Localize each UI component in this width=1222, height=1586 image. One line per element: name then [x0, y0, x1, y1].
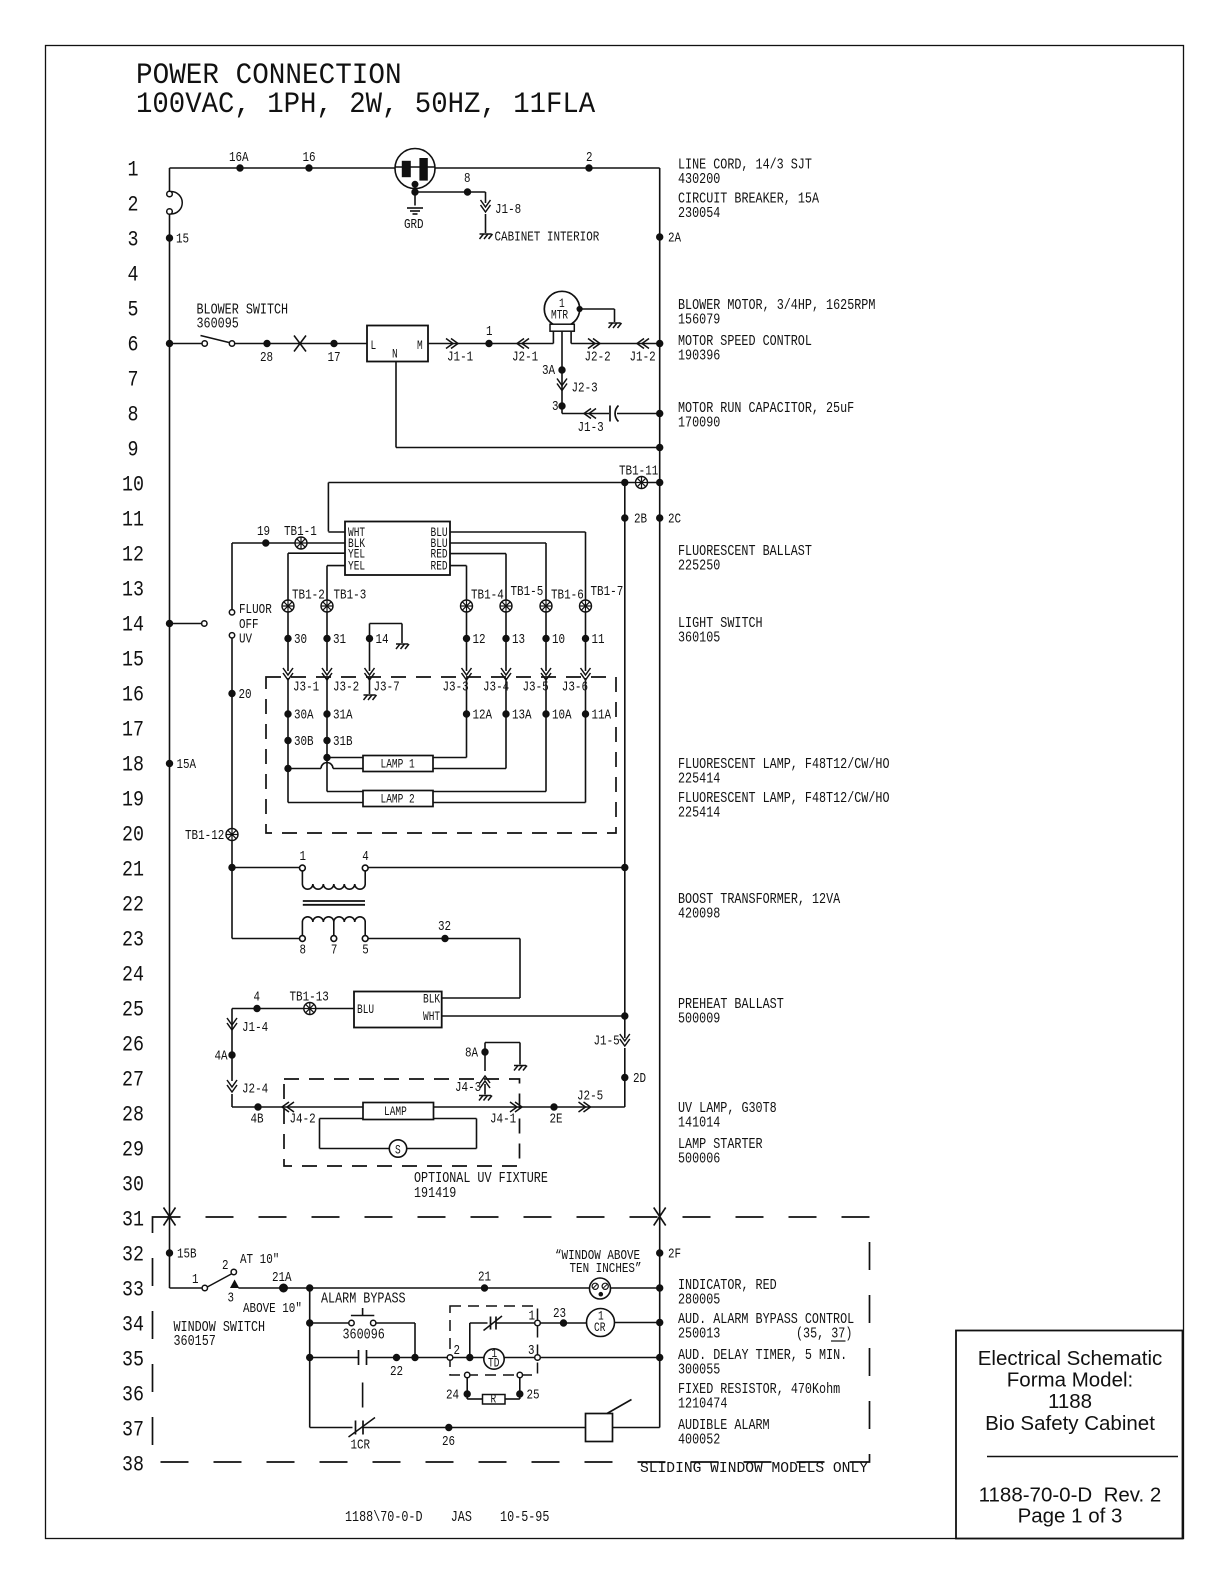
svg-text:32: 32 — [122, 1243, 144, 1268]
wire TB1-6 down — [545, 612, 547, 671]
wire pin to node 25 — [519, 1378, 521, 1399]
svg-text:2A: 2A — [668, 232, 682, 247]
wire pin8 to column2 — [232, 938, 300, 940]
wire YEL2 to TB1-3 — [327, 565, 345, 567]
node 2 — [586, 165, 592, 171]
connector J1-4 — [227, 1018, 237, 1030]
svg-text:J3-7: J3-7 — [374, 681, 400, 696]
wire 8A to chassis ground — [484, 1043, 486, 1053]
svg-text:28: 28 — [260, 351, 273, 366]
chassis ground J3-7 — [364, 695, 377, 700]
svg-text:J3-6: J3-6 — [562, 681, 588, 696]
svg-text:32: 32 — [438, 920, 451, 935]
svg-text:N: N — [392, 347, 398, 362]
terminal TB1-12 — [226, 829, 238, 841]
crossing mark row6 — [294, 336, 306, 352]
uv lamp LAMP — [363, 1103, 434, 1120]
junction alarm rail top — [307, 1285, 313, 1291]
node 22 — [393, 1354, 399, 1360]
junction timer NC branch — [467, 1354, 473, 1360]
wire left bus row14 to window switch — [169, 624, 171, 1289]
node 12A — [463, 711, 469, 717]
junction right bus row8 — [657, 410, 663, 416]
svg-text:3: 3 — [528, 1344, 535, 1359]
svg-text:SLIDING WINDOW MODELS ONLY: SLIDING WINDOW MODELS ONLY — [640, 1460, 868, 1477]
wire J3-7 to ground — [369, 678, 371, 694]
svg-text:10: 10 — [552, 633, 565, 648]
svg-text:12A: 12A — [473, 709, 493, 724]
svg-text:23: 23 — [553, 1307, 566, 1322]
svg-text:27: 27 — [122, 1068, 144, 1093]
wire indicator to right bus — [611, 1287, 660, 1289]
svg-text:J4-3: J4-3 — [455, 1081, 481, 1096]
light switch S2 — [202, 610, 235, 638]
wire TB1-5 down — [505, 612, 507, 671]
wire row1 left — [170, 167, 396, 169]
connector J3-7 — [365, 668, 375, 680]
svg-text:1CR: 1CR — [351, 1439, 371, 1454]
alarm bypass pushbutton S4 — [349, 1308, 376, 1326]
wire TB1-7 down — [585, 612, 587, 671]
node 25 — [517, 1391, 523, 1397]
svg-text:BLK: BLK — [423, 992, 440, 1007]
window switch S3 — [170, 1269, 239, 1290]
svg-text:4: 4 — [128, 263, 139, 288]
svg-text:12: 12 — [122, 543, 144, 568]
svg-text:TB1-3: TB1-3 — [334, 589, 367, 604]
svg-text:1188-70-0-D Rev. 2: 1188-70-0-D Rev. 2 — [979, 1484, 1162, 1507]
wire row1 right — [435, 167, 660, 169]
wire NC to pin1 — [496, 1322, 535, 1324]
connector J1-5 — [620, 1034, 630, 1046]
wire YEL1 to TB1-2 — [288, 552, 345, 554]
connector J1-2 — [637, 339, 649, 349]
svg-text:TB1-1: TB1-1 — [284, 525, 317, 540]
node 1 — [486, 340, 492, 346]
connector J2-5 — [579, 1102, 591, 1112]
audible alarm LS1 — [586, 1400, 632, 1442]
svg-text:13: 13 — [122, 578, 144, 603]
svg-text:J2-5: J2-5 — [577, 1090, 603, 1105]
wire BLU2 to TB1-6 — [450, 542, 546, 544]
node 4B — [255, 1104, 261, 1110]
connector J2-3 — [557, 379, 567, 391]
junction alarm rail row35 — [307, 1354, 313, 1360]
terminal TB1-1 — [295, 537, 307, 549]
svg-text:30A: 30A — [294, 709, 314, 724]
node 30 — [285, 635, 291, 641]
node 2E — [551, 1104, 557, 1110]
wire J3-6 into fixture — [585, 678, 587, 803]
node 3A — [559, 367, 565, 373]
svg-text:4B: 4B — [251, 1113, 264, 1128]
svg-text:100VAC, 1PH, 2W, 50HZ, 11FLA: 100VAC, 1PH, 2W, 50HZ, 11FLA — [136, 88, 595, 122]
svg-text:TB1-6: TB1-6 — [551, 589, 584, 604]
wire pin2 to TD — [453, 1357, 484, 1359]
connector J1-1 — [446, 339, 458, 349]
svg-text:4: 4 — [254, 991, 261, 1006]
wire BLK pin to node19 — [266, 542, 345, 544]
svg-text:225414: 225414 — [678, 805, 720, 822]
wire speed control to motor — [428, 343, 553, 345]
terminal TB1-6 — [540, 600, 552, 612]
svg-text:ABOVE 10″: ABOVE 10″ — [243, 1302, 302, 1317]
wire 30 to lamp2 — [287, 769, 289, 803]
node 16 — [306, 165, 312, 171]
svg-text:36: 36 — [122, 1383, 144, 1408]
svg-text:23: 23 — [122, 928, 144, 953]
svg-text:420098: 420098 — [678, 906, 720, 923]
svg-text:11A: 11A — [592, 709, 612, 724]
wire TB1-4 down — [466, 612, 468, 671]
svg-text:R: R — [491, 1392, 497, 1407]
node 21A — [280, 1284, 288, 1292]
svg-text:8: 8 — [300, 944, 307, 959]
wire pushbutton to row35 — [376, 1322, 415, 1324]
svg-text:5: 5 — [362, 944, 369, 959]
terminal TB1-5 — [500, 600, 512, 612]
svg-text:J2-2: J2-2 — [585, 351, 611, 366]
svg-text:5: 5 — [128, 298, 139, 323]
optional UV fixture dashed enclosure — [284, 1079, 520, 1166]
svg-text:1: 1 — [486, 325, 493, 340]
svg-text:31: 31 — [333, 633, 346, 648]
svg-text:J1-4: J1-4 — [242, 1021, 268, 1036]
mechanical link dashed — [362, 1383, 364, 1408]
wire pin to node 24 — [466, 1378, 468, 1399]
svg-text:30: 30 — [122, 1173, 144, 1198]
delay timer dashed enclosure — [450, 1306, 538, 1375]
svg-text:TB1-4: TB1-4 — [471, 589, 504, 604]
svg-text:1210474: 1210474 — [678, 1396, 727, 1413]
svg-text:FLUOR: FLUOR — [239, 603, 272, 618]
svg-text:500009: 500009 — [678, 1011, 720, 1028]
node 20 — [229, 690, 235, 696]
wire node19 to FLUOR contact — [232, 542, 266, 544]
node 17 — [331, 340, 337, 346]
node 31 — [324, 635, 330, 641]
wire lamp to 2E J2-5 — [434, 1106, 625, 1108]
svg-text:10: 10 — [122, 473, 144, 498]
svg-text:24: 24 — [446, 1389, 459, 1404]
node 4A — [229, 1052, 235, 1058]
svg-text:2D: 2D — [633, 1072, 646, 1087]
node 15A — [166, 760, 172, 766]
preheat ballast U3 — [354, 992, 442, 1028]
wire 14 gnd stub — [369, 624, 371, 672]
wire resistor to 25 — [505, 1398, 520, 1400]
wire 2B line lower — [624, 868, 626, 1017]
wire node3 to capacitor — [562, 413, 609, 415]
connector J2-1 — [517, 339, 529, 349]
node 4 — [254, 1005, 260, 1011]
wire alarm rail — [309, 1288, 311, 1428]
wire left bus breaker to row6 — [169, 214, 171, 343]
svg-text:TB1-7: TB1-7 — [591, 585, 624, 600]
svg-text:19: 19 — [257, 525, 270, 540]
wire CR to right bus — [615, 1322, 660, 1324]
wire alarm to right bus — [613, 1427, 660, 1429]
junction WHT 2B — [622, 1013, 628, 1019]
svg-text:J3-3: J3-3 — [443, 681, 469, 696]
connector J1-3 — [584, 409, 596, 419]
svg-text:J1-3: J1-3 — [578, 421, 604, 436]
svg-text:20: 20 — [122, 823, 144, 848]
svg-text:11: 11 — [122, 508, 144, 533]
node 13A — [503, 711, 509, 717]
junction right bus row9 — [657, 444, 663, 450]
svg-text:S: S — [395, 1143, 401, 1158]
terminal TB1-7 — [580, 600, 592, 612]
wire row21 to xfmr pin1 — [232, 867, 299, 869]
svg-text:CR: CR — [594, 1320, 606, 1335]
wire N to right bus — [395, 362, 397, 448]
svg-text:16: 16 — [122, 683, 144, 708]
wire row6 to switch — [170, 343, 203, 345]
wire J3-3 into fixture — [466, 678, 468, 758]
wire J3-4 into fixture — [505, 678, 507, 769]
wire TB1-3 down — [326, 612, 328, 671]
svg-text:J1-1: J1-1 — [447, 351, 473, 366]
wire right bus — [659, 168, 661, 1428]
fixed resistor R — [483, 1395, 506, 1405]
wire row37 left — [310, 1427, 353, 1429]
svg-text:35: 35 — [122, 1348, 144, 1373]
wire TB1-13 to node4 — [257, 1008, 304, 1010]
svg-text:21A: 21A — [272, 1271, 292, 1286]
svg-text:LAMP: LAMP — [384, 1104, 407, 1119]
wire 31A to lamp1 — [327, 757, 363, 759]
terminal TB1-4 — [461, 600, 473, 612]
svg-text:400052: 400052 — [678, 1432, 720, 1449]
svg-text:15B: 15B — [177, 1248, 197, 1263]
terminal TB1-13 — [304, 1003, 316, 1015]
wire plug ground branch — [415, 191, 486, 193]
svg-text:18: 18 — [122, 753, 144, 778]
blower switch S1 — [201, 336, 235, 347]
connector J3-4 — [501, 668, 511, 680]
wire motor case ground — [580, 308, 615, 310]
svg-text:12: 12 — [473, 633, 486, 648]
terminal TB1-3 — [321, 600, 333, 612]
connector J3-6 — [581, 668, 591, 680]
node 24 — [464, 1391, 470, 1397]
wire 8A down to J4-3 — [484, 1055, 486, 1071]
svg-text:26: 26 — [442, 1435, 455, 1450]
svg-text:16A: 16A — [229, 151, 249, 166]
wire node4 to J1-4 — [232, 1008, 257, 1010]
connector J3-1 — [283, 668, 293, 680]
blower motor MTR1 — [544, 291, 579, 343]
wire left bus top — [169, 168, 171, 191]
svg-text:J3-2: J3-2 — [333, 681, 359, 696]
svg-text:2: 2 — [222, 1259, 229, 1274]
node 10 — [543, 635, 549, 641]
wire UV contact down — [231, 638, 233, 868]
svg-text:225414: 225414 — [678, 771, 720, 788]
svg-text:8A: 8A — [465, 1047, 479, 1062]
svg-text:17: 17 — [122, 718, 144, 743]
svg-text:360105: 360105 — [678, 630, 720, 647]
svg-text:2B: 2B — [634, 513, 647, 528]
timer pin 2 contact — [447, 1355, 453, 1361]
svg-text:3: 3 — [228, 1292, 235, 1307]
svg-text:14: 14 — [122, 613, 144, 638]
wire pin1 to CR — [541, 1322, 587, 1324]
svg-text:Page 1 of 3: Page 1 of 3 — [1018, 1505, 1123, 1528]
wire RED2 to TB1-4 — [450, 565, 467, 567]
delay timer TD — [484, 1349, 504, 1369]
wire WHT to 2B line — [442, 1015, 625, 1017]
node 8 — [464, 189, 470, 195]
wire motor winding tap — [561, 331, 563, 413]
junction 2B tap — [622, 479, 628, 485]
svg-text:Forma Model:: Forma Model: — [1007, 1369, 1133, 1392]
fluorescent lamp LAMP 2 — [363, 791, 433, 807]
wire 1CR to alarm — [363, 1427, 586, 1429]
svg-text:M: M — [417, 338, 423, 353]
wire J1-8 upper — [485, 192, 487, 203]
svg-text:31: 31 — [122, 1208, 144, 1233]
svg-text:190396: 190396 — [678, 348, 720, 365]
svg-text:25: 25 — [122, 998, 144, 1023]
row numbers 1-38 — [122, 158, 144, 1478]
svg-text:MTR: MTR — [551, 308, 568, 323]
svg-text:TB1-5: TB1-5 — [511, 585, 544, 600]
node 31B — [324, 737, 330, 743]
svg-text:156079: 156079 — [678, 312, 720, 329]
chassis ground 8A — [514, 1066, 527, 1071]
svg-text:J4-1: J4-1 — [490, 1113, 516, 1128]
svg-text:TD: TD — [488, 1356, 500, 1371]
title box — [956, 1331, 1183, 1539]
svg-text:22: 22 — [390, 1365, 403, 1380]
connector J3-3 — [462, 668, 472, 680]
svg-text:26: 26 — [122, 1033, 144, 1058]
svg-text:2E: 2E — [550, 1113, 563, 1128]
node 2B — [622, 515, 628, 521]
node 11 — [582, 635, 588, 641]
wire motor to right bus — [571, 343, 660, 345]
connector J3-2 — [322, 668, 332, 680]
svg-text:7: 7 — [331, 944, 338, 959]
connector J1-8 — [481, 200, 491, 212]
fluorescent fixture dashed enclosure — [266, 677, 616, 833]
svg-text:TB1-13: TB1-13 — [290, 991, 329, 1006]
crossing mark left bus row31 — [164, 1208, 176, 1226]
node 2D — [622, 1074, 628, 1080]
node 12 — [463, 635, 469, 641]
svg-text:170090: 170090 — [678, 415, 720, 432]
wire node32 down to BLK — [519, 939, 521, 999]
alarm bypass contact — [359, 1350, 367, 1365]
timer pin 1 contact — [535, 1320, 541, 1326]
indicator lamp DS1 — [590, 1278, 611, 1299]
terminal TB1-11 — [636, 477, 648, 489]
svg-text:21: 21 — [122, 858, 144, 883]
junction 30 lamp1 — [285, 765, 291, 771]
svg-text:4: 4 — [362, 850, 369, 865]
svg-text:8: 8 — [464, 172, 471, 187]
svg-text:38: 38 — [122, 1453, 144, 1478]
lamp starter S — [320, 1119, 477, 1158]
connector J3-5 — [541, 668, 551, 680]
node 15B — [166, 1250, 172, 1256]
svg-text:J3-1: J3-1 — [293, 681, 319, 696]
svg-text:L: L — [371, 338, 377, 353]
svg-text:3: 3 — [128, 228, 139, 253]
connector J4-1 — [510, 1102, 522, 1112]
junction right bus row6 — [657, 340, 663, 346]
svg-text:Bio Safety Cabinet: Bio Safety Cabinet — [985, 1412, 1155, 1435]
svg-text:30: 30 — [294, 633, 307, 648]
node 28 — [264, 340, 270, 346]
connector J2-4 — [227, 1080, 237, 1092]
junction row21 right — [622, 864, 628, 870]
svg-text:BLU: BLU — [357, 1002, 374, 1017]
wire lamp2 to 11A — [433, 802, 586, 804]
svg-text:OFF: OFF — [239, 618, 259, 633]
wire RED1 to TB1-5 — [450, 553, 506, 555]
svg-text:16: 16 — [303, 151, 316, 166]
svg-text:CABINET INTERIOR: CABINET INTERIOR — [495, 231, 600, 246]
wire 30 to lamp1 with hop — [288, 768, 321, 770]
chassis ground motor — [609, 323, 622, 328]
svg-text:LAMP 1: LAMP 1 — [381, 757, 415, 772]
svg-text:1: 1 — [192, 1273, 199, 1288]
node 19 — [263, 540, 269, 546]
wire 4A to J2-4 — [231, 1038, 233, 1081]
svg-text:360157: 360157 — [174, 1333, 216, 1350]
alarm bypass control relay CR — [587, 1309, 615, 1337]
svg-text:7: 7 — [128, 368, 139, 393]
svg-text:3: 3 — [552, 400, 559, 415]
svg-text:1: 1 — [529, 1310, 536, 1325]
connector J2-2 — [588, 339, 600, 349]
svg-text:33: 33 — [122, 1278, 144, 1303]
svg-text:22: 22 — [122, 893, 144, 918]
wire contact to timer box — [367, 1357, 451, 1359]
svg-text:UV: UV — [239, 633, 253, 648]
wire 31 to lamp2 — [326, 758, 328, 792]
svg-text:10A: 10A — [552, 709, 572, 724]
svg-text:GRD: GRD — [404, 218, 424, 233]
ground GRD — [407, 208, 423, 214]
crossing mark right bus row31 — [654, 1208, 666, 1226]
junction right bus timer — [657, 1354, 663, 1360]
svg-text:J2-4: J2-4 — [242, 1083, 268, 1098]
wire xfmr pin4 to 2B line — [368, 867, 625, 869]
svg-text:191419: 191419 — [414, 1185, 456, 1202]
connector J4-2 — [282, 1102, 294, 1112]
svg-text:34: 34 — [122, 1313, 144, 1338]
svg-text:1: 1 — [300, 850, 307, 865]
wire BLU1 to TB1-7 — [450, 531, 586, 533]
svg-text:15A: 15A — [177, 758, 197, 773]
node 8A — [482, 1049, 488, 1055]
svg-text:15: 15 — [122, 648, 144, 673]
wire 24 to resistor — [467, 1398, 482, 1400]
junction alarm rail row34 — [307, 1320, 313, 1326]
node 2A — [657, 234, 663, 240]
node 15 — [166, 235, 172, 241]
svg-text:ALARM BYPASS: ALARM BYPASS — [321, 1291, 406, 1308]
node 26 — [446, 1424, 452, 1430]
svg-text:LAMP 2: LAMP 2 — [381, 792, 415, 807]
svg-text:9: 9 — [128, 438, 139, 463]
svg-text:1188: 1188 — [1048, 1390, 1092, 1413]
junction left bus light switch — [166, 620, 172, 626]
